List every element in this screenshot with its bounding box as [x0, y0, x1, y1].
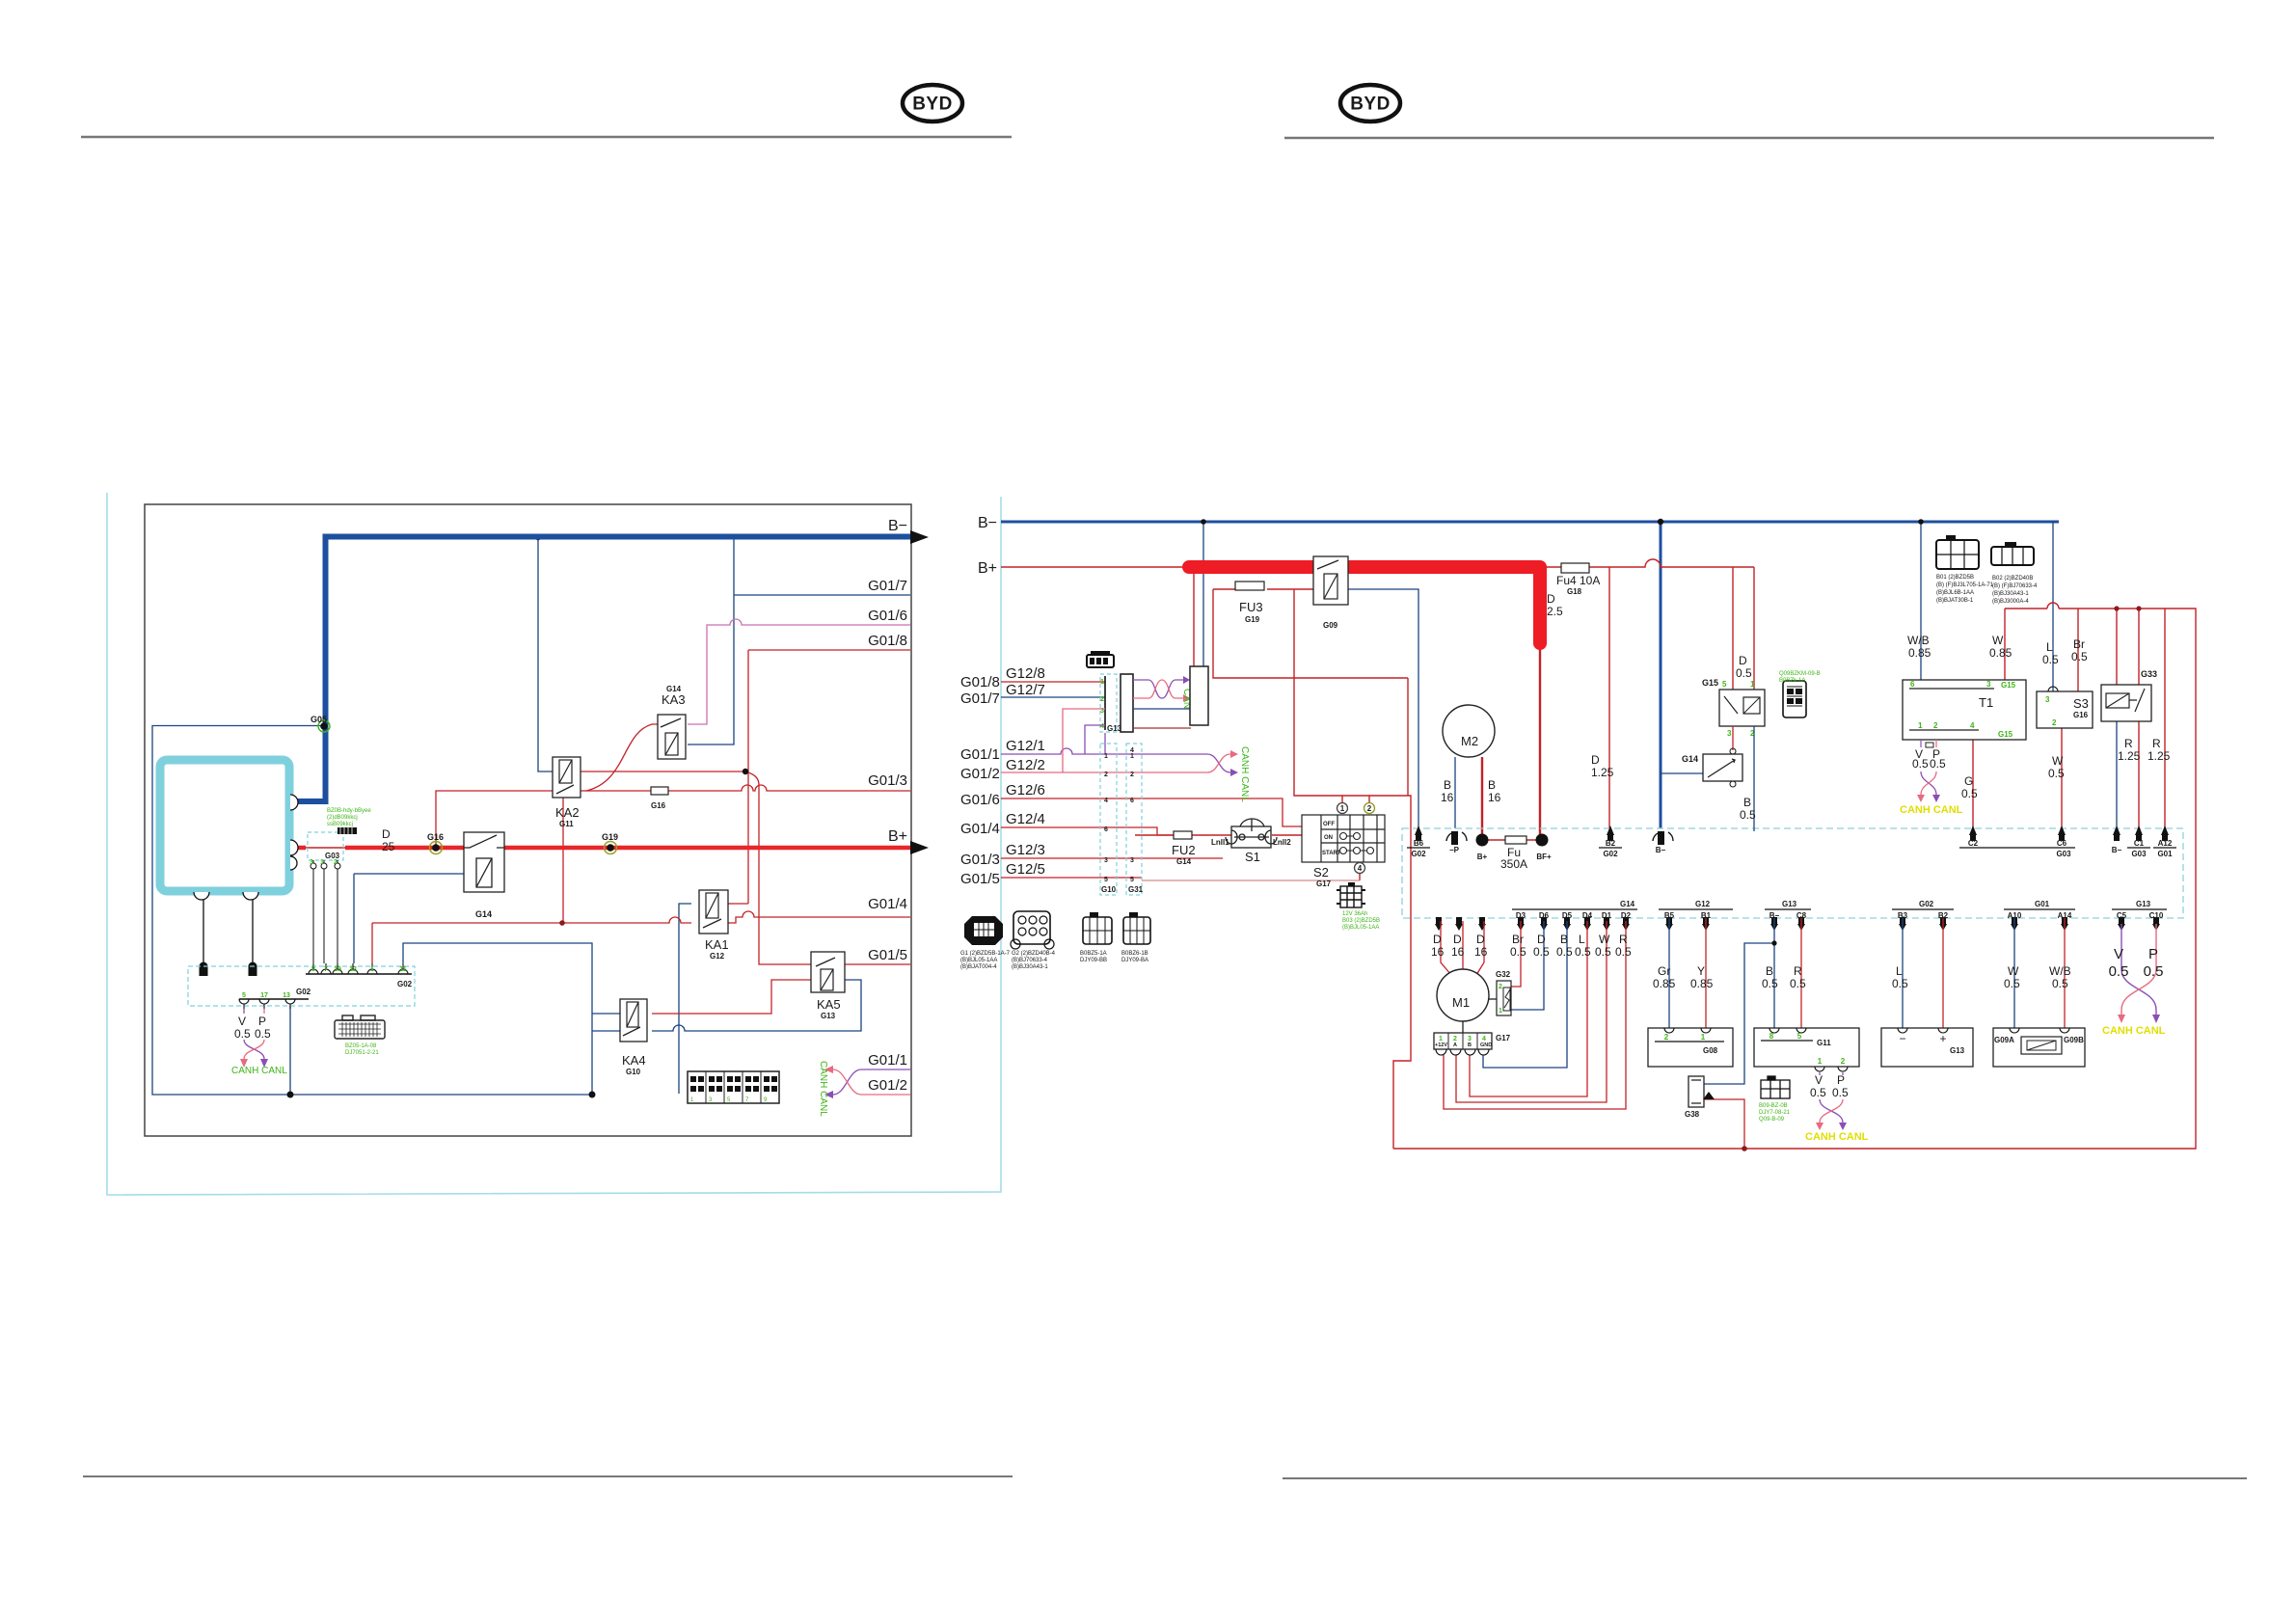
svg-text:S1: S1 [1245, 850, 1260, 864]
svg-text:M2: M2 [1461, 734, 1478, 748]
svg-text:A: A [1453, 1042, 1457, 1048]
svg-text:B03 (2)BZD5B: B03 (2)BZD5B [1342, 918, 1380, 924]
svg-text:G01/3: G01/3 [868, 772, 907, 789]
svg-text:0.5: 0.5 [2004, 977, 2020, 990]
svg-text:0.5: 0.5 [2071, 650, 2088, 663]
svg-text:19: 19 [334, 966, 341, 973]
svg-text:G17: G17 [1316, 880, 1332, 888]
svg-text:B: B [1444, 778, 1451, 792]
svg-text:6: 6 [1104, 826, 1108, 833]
svg-text:(B)BJL6B-1AA: (B)BJL6B-1AA [1936, 590, 1974, 596]
svg-text:G12/1: G12/1 [1006, 738, 1045, 754]
svg-text:G03: G03 [2131, 850, 2147, 858]
svg-text:1: 1 [1750, 680, 1755, 689]
svg-text:Lnll2: Lnll2 [1273, 838, 1291, 847]
svg-text:B0BZ6-1B: B0BZ6-1B [1121, 951, 1148, 957]
svg-text:2: 2 [1130, 771, 1134, 778]
svg-text:0.5: 0.5 [1892, 977, 1908, 990]
svg-text:FU3: FU3 [1239, 600, 1263, 614]
svg-text:V: V [1815, 1073, 1823, 1087]
svg-text:(2)dB09kkcj: (2)dB09kkcj [327, 815, 358, 821]
svg-text:D: D [382, 827, 391, 841]
svg-text:2: 2 [1453, 1036, 1457, 1042]
svg-text:17: 17 [260, 992, 268, 999]
svg-text:16: 16 [1488, 791, 1501, 804]
svg-text:W: W [1992, 634, 2004, 647]
svg-text:OFF: OFF [1323, 822, 1335, 827]
svg-text:G01/8: G01/8 [960, 674, 1000, 690]
svg-text:2: 2 [1104, 771, 1108, 778]
svg-text:3: 3 [1986, 680, 1991, 689]
svg-text:G01/1: G01/1 [960, 746, 1000, 763]
svg-text:FU2: FU2 [1172, 843, 1196, 857]
svg-text:D1: D1 [1602, 911, 1612, 920]
svg-text:BYD: BYD [1350, 95, 1391, 115]
svg-text:(B)BJAT30B-1: (B)BJAT30B-1 [1936, 598, 1974, 604]
svg-text:1.25: 1.25 [2118, 749, 2141, 763]
svg-text:0.5: 0.5 [2052, 977, 2068, 990]
svg-text:Br: Br [2073, 637, 2085, 651]
svg-text:G12: G12 [710, 952, 725, 961]
svg-text:DJ7051-2-21: DJ7051-2-21 [345, 1050, 379, 1056]
svg-text:12: 12 [349, 966, 357, 973]
svg-text:R: R [2152, 737, 2161, 750]
svg-text:D6: D6 [1539, 911, 1550, 920]
svg-text:G01/5: G01/5 [868, 947, 907, 963]
svg-text:G01/4: G01/4 [868, 896, 907, 912]
svg-text:G14: G14 [1682, 754, 1698, 764]
svg-text:2: 2 [1100, 696, 1104, 703]
svg-text:Y: Y [1697, 964, 1705, 978]
svg-text:1: 1 [1499, 1008, 1502, 1015]
svg-text:G2 (2)BZD40B-4: G2 (2)BZD40B-4 [1012, 951, 1056, 957]
svg-text:16: 16 [1431, 945, 1445, 959]
svg-text:G16: G16 [2073, 711, 2089, 719]
svg-text:P: P [258, 1015, 266, 1028]
svg-text:0.5: 0.5 [1575, 945, 1591, 959]
svg-text:W: W [2052, 754, 2064, 768]
svg-text:B+: B+ [888, 828, 907, 845]
svg-text:B+: B+ [978, 560, 997, 577]
svg-text:0.5: 0.5 [2048, 767, 2065, 780]
svg-text:G16: G16 [427, 832, 444, 842]
svg-text:C10: C10 [2149, 911, 2164, 920]
svg-text:Br: Br [1512, 933, 1524, 946]
svg-text:0.5: 0.5 [1762, 977, 1778, 990]
svg-text:2: 2 [1664, 1033, 1669, 1042]
svg-text:B−: B− [888, 518, 907, 534]
svg-text:M1: M1 [1452, 995, 1470, 1010]
svg-text:BZ0B-hdy-bByee: BZ0B-hdy-bByee [327, 808, 371, 814]
svg-text:2.5: 2.5 [1547, 605, 1563, 618]
svg-text:KA1: KA1 [705, 937, 729, 952]
svg-text:G31: G31 [1128, 885, 1144, 894]
svg-text:G32: G32 [1496, 970, 1511, 979]
svg-text:G02: G02 [1919, 900, 1934, 908]
svg-text:4: 4 [1482, 1036, 1486, 1042]
svg-text:1: 1 [1130, 753, 1134, 760]
svg-text:KA3: KA3 [662, 692, 686, 707]
svg-text:3: 3 [1468, 1036, 1472, 1042]
svg-text:6: 6 [1130, 798, 1134, 804]
svg-text:0.5: 0.5 [2144, 963, 2164, 980]
svg-text:D: D [1591, 753, 1600, 767]
svg-text:START: START [1322, 851, 1341, 856]
svg-text:3: 3 [1130, 857, 1134, 864]
svg-text:G02: G02 [296, 988, 311, 996]
svg-text:4: 4 [1100, 723, 1104, 730]
svg-text:G13: G13 [1782, 900, 1797, 908]
svg-text:(B)BJL05-1AA: (B)BJL05-1AA [960, 958, 997, 963]
svg-text:ON: ON [1324, 835, 1333, 841]
svg-text:CANH CANL: CANH CANL [1805, 1131, 1869, 1143]
svg-text:B: B [1766, 964, 1773, 978]
svg-text:G11: G11 [1817, 1039, 1831, 1047]
svg-text:(B)BJ30A43-1: (B)BJ30A43-1 [1012, 964, 1048, 970]
svg-text:25: 25 [382, 840, 395, 853]
svg-text:KA4: KA4 [622, 1053, 646, 1068]
svg-text:B6: B6 [1414, 839, 1424, 848]
svg-text:3: 3 [1104, 857, 1108, 864]
svg-text:B+: B+ [1477, 853, 1488, 861]
svg-text:B: B [1488, 778, 1496, 792]
svg-text:B01 (2)BZD5B: B01 (2)BZD5B [1936, 575, 1974, 581]
svg-text:G13: G13 [1950, 1046, 1965, 1055]
svg-text:G03: G03 [2056, 850, 2071, 858]
svg-text:G09A: G09A [1994, 1036, 2014, 1044]
svg-text:D: D [1739, 654, 1747, 667]
svg-text:3: 3 [2045, 695, 2050, 704]
svg-text:G15: G15 [2001, 681, 2016, 690]
svg-text:1: 1 [1104, 753, 1108, 760]
svg-text:2: 2 [334, 859, 338, 866]
svg-text:G17: G17 [1496, 1034, 1511, 1042]
svg-text:0.5: 0.5 [1533, 945, 1550, 959]
svg-text:G13: G13 [2136, 900, 2151, 908]
svg-text:D2: D2 [1621, 911, 1632, 920]
svg-text:G01/7: G01/7 [960, 690, 1000, 707]
svg-text:8: 8 [1769, 1032, 1774, 1041]
svg-text:G12/8: G12/8 [1006, 665, 1045, 682]
svg-text:(B)BJL05-1AA: (B)BJL05-1AA [1342, 925, 1379, 931]
svg-text:G02: G02 [397, 980, 413, 988]
svg-text:1.25: 1.25 [1591, 766, 1614, 779]
svg-text:R: R [1619, 933, 1628, 946]
svg-text:0.5: 0.5 [255, 1027, 271, 1041]
svg-text:W: W [2008, 964, 2019, 978]
svg-text:R: R [2124, 737, 2133, 750]
svg-text:G09B: G09B [2064, 1036, 2084, 1044]
svg-text:D: D [1476, 933, 1485, 946]
svg-text:G01/7: G01/7 [868, 578, 907, 594]
svg-text:0.5: 0.5 [1736, 666, 1752, 680]
svg-text:KA2: KA2 [555, 805, 580, 820]
svg-text:DJY09-BA: DJY09-BA [1121, 958, 1148, 963]
svg-text:(B)BJ30A43-1: (B)BJ30A43-1 [1992, 591, 2029, 597]
svg-text:0.5: 0.5 [1912, 757, 1929, 771]
svg-text:0.5: 0.5 [234, 1027, 251, 1041]
svg-text:0.5: 0.5 [1615, 945, 1632, 959]
svg-text:D4: D4 [1582, 911, 1593, 920]
svg-text:P: P [2148, 946, 2158, 962]
svg-text:G15: G15 [1998, 730, 2013, 739]
svg-text:0.5: 0.5 [1832, 1086, 1849, 1099]
svg-text:S3: S3 [2073, 696, 2089, 711]
svg-text:G12/7: G12/7 [1006, 682, 1045, 698]
svg-text:1: 1 [1818, 1057, 1823, 1066]
svg-text:4: 4 [1970, 721, 1975, 730]
svg-text:G01/2: G01/2 [960, 766, 1000, 782]
svg-text:G13: G13 [821, 1012, 836, 1020]
svg-text:B02 (2)BZD40B: B02 (2)BZD40B [1992, 576, 2033, 582]
svg-text:CANH CANL: CANH CANL [818, 1061, 828, 1117]
svg-text:16: 16 [1451, 945, 1465, 959]
svg-text:Gr: Gr [1658, 964, 1670, 978]
svg-text:R: R [1794, 964, 1802, 978]
svg-text:G10: G10 [626, 1068, 641, 1076]
svg-text:W/B: W/B [1907, 634, 1930, 647]
svg-text:D3: D3 [1516, 911, 1526, 920]
svg-text:D: D [1537, 933, 1546, 946]
svg-text:3: 3 [1727, 729, 1732, 738]
svg-text:G01: G01 [2157, 850, 2173, 858]
svg-text:G11: G11 [559, 820, 574, 828]
svg-text:C5: C5 [2117, 911, 2127, 920]
svg-text:4: 4 [1358, 864, 1363, 873]
svg-text:D: D [1453, 933, 1462, 946]
svg-text:13: 13 [283, 992, 290, 999]
svg-text:0.5: 0.5 [1510, 945, 1526, 959]
svg-text:0.85: 0.85 [1653, 977, 1676, 990]
svg-text:G14: G14 [475, 909, 492, 919]
svg-text:G14: G14 [1176, 857, 1192, 866]
svg-text:G18: G18 [1567, 587, 1582, 596]
svg-text:G19: G19 [602, 832, 618, 842]
svg-text:G12/4: G12/4 [1006, 811, 1045, 827]
svg-text:G12/6: G12/6 [1006, 782, 1045, 798]
svg-text:−: − [1899, 1032, 1905, 1045]
svg-text:G08: G08 [1703, 1046, 1718, 1055]
svg-text:V: V [2114, 946, 2123, 962]
svg-text:1: 1 [1100, 679, 1104, 686]
svg-text:B: B [1468, 1042, 1472, 1048]
svg-text:1: 1 [320, 859, 324, 866]
svg-text:(B) (F)BJ70633-4: (B) (F)BJ70633-4 [1992, 583, 2038, 589]
svg-text:0.5: 0.5 [1595, 945, 1611, 959]
svg-text:D: D [1547, 592, 1555, 606]
svg-text:L: L [1579, 933, 1585, 946]
svg-text:0.5: 0.5 [1961, 787, 1978, 800]
svg-text:G38: G38 [1685, 1110, 1700, 1119]
svg-text:G14: G14 [1620, 900, 1635, 908]
svg-text:G02: G02 [1411, 850, 1426, 858]
svg-text:2: 2 [1933, 721, 1938, 730]
svg-text:6: 6 [1910, 680, 1915, 689]
svg-text:T1: T1 [1979, 695, 1993, 710]
svg-text:D5: D5 [1562, 911, 1573, 920]
svg-text:11: 11 [399, 966, 407, 973]
svg-text:0.85: 0.85 [1908, 646, 1931, 660]
svg-text:4: 4 [1104, 798, 1108, 804]
svg-text:B−: B− [1656, 846, 1666, 854]
svg-text:Fu4 10A: Fu4 10A [1556, 574, 1600, 587]
svg-text:0.5: 0.5 [1740, 808, 1756, 822]
svg-text:5: 5 [242, 992, 246, 999]
svg-text:CANH CANL: CANH CANL [231, 1066, 287, 1076]
svg-text:A12: A12 [2158, 839, 2173, 848]
svg-text:1: 1 [1918, 721, 1923, 730]
svg-text:C1: C1 [2134, 839, 2145, 848]
svg-text:16: 16 [1474, 945, 1488, 959]
svg-text:L: L [2046, 640, 2053, 654]
svg-text:5: 5 [1104, 877, 1108, 883]
svg-text:G15: G15 [1702, 678, 1718, 688]
svg-text:G05: G05 [311, 715, 327, 724]
svg-text:5: 5 [1722, 680, 1727, 689]
svg-text:DJY7-08-21: DJY7-08-21 [1759, 1110, 1791, 1116]
svg-text:B2: B2 [1606, 839, 1616, 848]
svg-text:B0BZk-1A: B0BZk-1A [1779, 678, 1805, 684]
svg-text:G02: G02 [1603, 850, 1618, 858]
svg-text:G12: G12 [1695, 900, 1711, 908]
svg-text:G01/5: G01/5 [960, 871, 1000, 887]
svg-text:2: 2 [1841, 1057, 1846, 1066]
svg-text:1: 1 [1439, 1036, 1443, 1042]
svg-text:G10: G10 [1101, 885, 1117, 894]
svg-text:BYD: BYD [912, 95, 953, 115]
svg-text:0.5: 0.5 [2042, 653, 2059, 666]
svg-text:1: 1 [1701, 1033, 1706, 1042]
svg-text:1: 1 [1340, 804, 1345, 813]
svg-text:G09: G09 [1323, 621, 1338, 630]
svg-text:G01/6: G01/6 [960, 792, 1000, 808]
svg-text:W: W [1599, 933, 1610, 946]
svg-text:B−: B− [2112, 846, 2122, 854]
svg-text:G01/6: G01/6 [868, 608, 907, 624]
svg-text:GND: GND [1480, 1042, 1492, 1048]
svg-text:CANH CANL: CANH CANL [1900, 804, 1963, 816]
svg-text:7: 7 [324, 966, 328, 973]
svg-text:G01: G01 [2035, 900, 2050, 908]
svg-text:G01/1: G01/1 [868, 1052, 907, 1069]
svg-text:CANH CANL: CANH CANL [2102, 1025, 2166, 1037]
svg-text:G12/5: G12/5 [1006, 861, 1045, 878]
svg-text:(B)BJ70633-4: (B)BJ70633-4 [1012, 958, 1048, 963]
svg-text:2: 2 [1499, 984, 1502, 990]
svg-text:Lnll1: Lnll1 [1211, 838, 1229, 847]
svg-text:G12/3: G12/3 [1006, 842, 1045, 858]
svg-text:G01/8: G01/8 [868, 633, 907, 649]
svg-text:BZ05-1A-08: BZ05-1A-08 [345, 1043, 377, 1049]
svg-text:Q09BZKM-09-B: Q09BZKM-09-B [1779, 671, 1821, 677]
svg-text:G1 (2)BZD5B-1A-7: G1 (2)BZD5B-1A-7 [960, 951, 1011, 957]
svg-text:W/B: W/B [2049, 964, 2071, 978]
svg-text:0.85: 0.85 [1690, 977, 1714, 990]
svg-text:D: D [1433, 933, 1442, 946]
svg-text:CANH CANL: CANH CANL [1239, 746, 1250, 802]
svg-text:G01/4: G01/4 [960, 821, 1000, 837]
svg-text:16: 16 [1441, 791, 1454, 804]
svg-text:3: 3 [310, 859, 313, 866]
svg-text:B: B [1743, 796, 1751, 809]
svg-text:P: P [1837, 1073, 1845, 1087]
svg-text:5: 5 [1797, 1032, 1802, 1041]
svg-text:G19: G19 [1245, 615, 1260, 624]
svg-text:G: G [1964, 774, 1973, 788]
svg-text:0.5: 0.5 [1930, 757, 1946, 771]
svg-text:L: L [1896, 964, 1903, 978]
svg-text:ssB09kkcj: ssB09kkcj [327, 822, 353, 827]
svg-text:350A: 350A [1500, 857, 1527, 871]
svg-text:G01/2: G01/2 [868, 1077, 907, 1094]
svg-text:8: 8 [311, 966, 315, 973]
svg-text:12V 36Ah: 12V 36Ah [1342, 911, 1367, 917]
svg-text:B−: B− [978, 515, 997, 531]
svg-text:0.5: 0.5 [1790, 977, 1806, 990]
svg-text:(B) (F)BJ3L705-1A-71: (B) (F)BJ3L705-1A-71 [1936, 582, 1994, 588]
svg-text:0.5: 0.5 [2109, 963, 2129, 980]
svg-text:2: 2 [1367, 804, 1372, 813]
svg-text:(B)BJAT004-4: (B)BJAT004-4 [960, 964, 997, 970]
svg-text:B: B [1560, 933, 1568, 946]
svg-text:G03: G03 [325, 852, 340, 860]
svg-text:0.5: 0.5 [1810, 1086, 1826, 1099]
svg-text:+: + [1939, 1032, 1946, 1045]
svg-text:G01/3: G01/3 [960, 852, 1000, 868]
svg-text:+12V: +12V [1435, 1042, 1447, 1048]
svg-text:2: 2 [2052, 718, 2057, 727]
svg-text:1: 1 [370, 966, 374, 973]
svg-text:G16: G16 [651, 801, 666, 810]
svg-text:B0BZ5-1A: B0BZ5-1A [1080, 951, 1107, 957]
svg-text:KA5: KA5 [817, 997, 841, 1012]
svg-text:G12/2: G12/2 [1006, 757, 1045, 773]
svg-text:G33: G33 [2141, 669, 2157, 679]
svg-text:(B)BJ3000A-4: (B)BJ3000A-4 [1992, 599, 2029, 605]
svg-text:C6: C6 [2057, 839, 2067, 848]
svg-text:S2: S2 [1313, 865, 1329, 880]
svg-text:1.25: 1.25 [2147, 749, 2171, 763]
svg-text:−P: −P [1449, 846, 1460, 854]
svg-text:C2: C2 [1968, 839, 1979, 848]
svg-text:0.5: 0.5 [1556, 945, 1573, 959]
svg-text:BF+: BF+ [1536, 853, 1552, 861]
svg-text:0.85: 0.85 [1989, 646, 2012, 660]
svg-text:V: V [238, 1015, 246, 1028]
svg-text:Q09-B-09: Q09-B-09 [1759, 1117, 1785, 1123]
svg-text:B09-BZ-0B: B09-BZ-0B [1759, 1103, 1788, 1109]
svg-text:DJY09-BB: DJY09-BB [1080, 958, 1107, 963]
svg-text:5: 5 [1130, 877, 1134, 883]
